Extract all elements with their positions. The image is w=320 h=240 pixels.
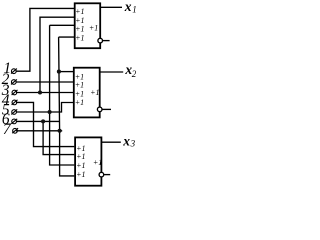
svg-text:7: 7 (3, 121, 12, 138)
svg-text:x: x (122, 133, 130, 148)
svg-text:+1: +1 (75, 98, 84, 107)
svg-text:+1: +1 (76, 152, 85, 161)
svg-text:1: 1 (132, 5, 137, 15)
svg-text:+1: +1 (90, 88, 99, 97)
svg-text:+1: +1 (75, 25, 84, 34)
svg-text:+1: +1 (76, 161, 85, 170)
svg-text:+1: +1 (89, 24, 98, 33)
svg-text:2: 2 (132, 69, 137, 79)
svg-text:+1: +1 (75, 80, 84, 89)
svg-text:3: 3 (130, 139, 136, 149)
svg-text:x: x (124, 0, 132, 14)
svg-text:+1: +1 (75, 7, 84, 16)
svg-text:+1: +1 (93, 158, 102, 167)
svg-text:+1: +1 (75, 33, 84, 42)
svg-text:+1: +1 (76, 170, 85, 179)
